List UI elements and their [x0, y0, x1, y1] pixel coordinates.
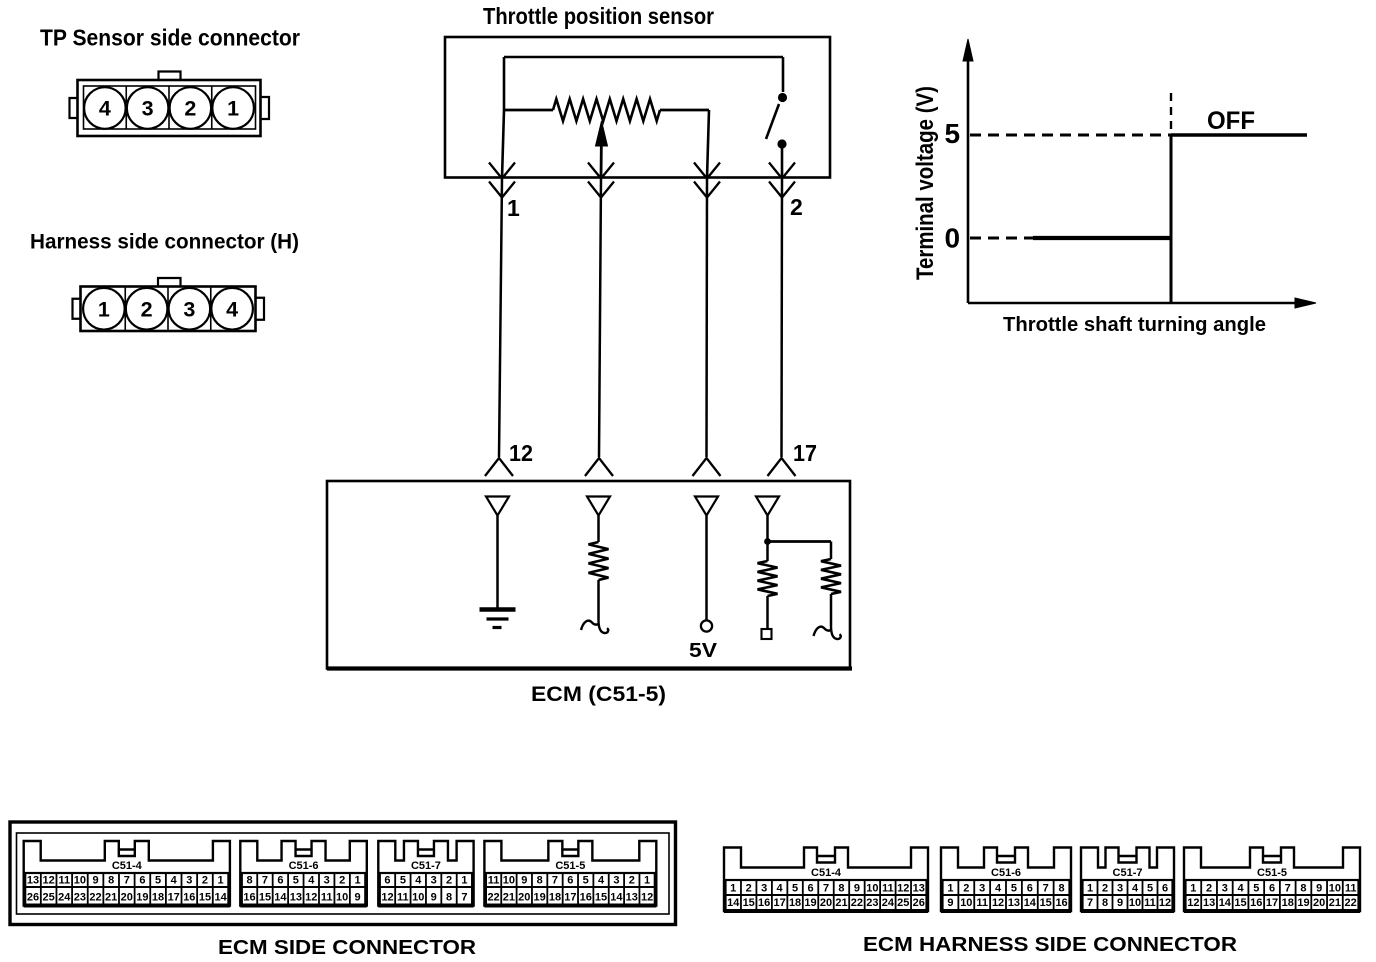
svg-text:2: 2 — [1206, 883, 1212, 895]
svg-text:2: 2 — [1102, 883, 1108, 895]
svg-text:21: 21 — [835, 897, 847, 909]
svg-text:6: 6 — [1269, 883, 1275, 895]
svg-text:2: 2 — [141, 297, 153, 321]
svg-text:4: 4 — [99, 97, 111, 121]
svg-text:16: 16 — [1250, 897, 1262, 909]
svg-text:12: 12 — [1159, 897, 1171, 909]
svg-text:7: 7 — [1087, 897, 1093, 909]
svg-text:TP Sensor side connector: TP Sensor side connector — [40, 25, 300, 51]
svg-text:11: 11 — [488, 875, 500, 887]
svg-text:13: 13 — [27, 875, 39, 887]
svg-text:12: 12 — [641, 892, 653, 904]
svg-text:2: 2 — [339, 875, 345, 887]
svg-text:2: 2 — [184, 97, 196, 121]
svg-text:22: 22 — [1345, 897, 1357, 909]
svg-text:12: 12 — [1187, 897, 1199, 909]
svg-text:10: 10 — [336, 892, 348, 904]
svg-text:Terminal voltage (V): Terminal voltage (V) — [912, 86, 939, 280]
svg-text:23: 23 — [74, 892, 86, 904]
svg-text:1: 1 — [730, 883, 736, 895]
svg-text:6: 6 — [277, 875, 283, 887]
svg-text:Throttle shaft turning angle: Throttle shaft turning angle — [1003, 314, 1266, 336]
svg-text:1: 1 — [98, 297, 110, 321]
svg-text:16: 16 — [1055, 897, 1067, 909]
svg-text:7: 7 — [552, 875, 558, 887]
svg-text:C51-4: C51-4 — [112, 860, 143, 872]
svg-text:4: 4 — [308, 875, 315, 887]
svg-text:1: 1 — [947, 883, 953, 895]
svg-text:7: 7 — [823, 883, 829, 895]
svg-text:12: 12 — [992, 897, 1004, 909]
svg-text:13: 13 — [290, 892, 302, 904]
svg-text:22: 22 — [851, 897, 863, 909]
svg-text:10: 10 — [960, 897, 972, 909]
svg-text:1: 1 — [227, 97, 239, 121]
svg-text:1: 1 — [218, 875, 224, 887]
svg-text:26: 26 — [913, 897, 925, 909]
svg-text:18: 18 — [152, 892, 164, 904]
svg-text:11: 11 — [321, 892, 333, 904]
svg-text:2: 2 — [629, 875, 635, 887]
svg-text:8: 8 — [537, 875, 543, 887]
svg-text:3: 3 — [979, 883, 985, 895]
svg-text:4: 4 — [598, 875, 605, 887]
svg-text:8: 8 — [108, 875, 114, 887]
svg-text:C51-4: C51-4 — [811, 867, 842, 879]
svg-text:11: 11 — [1144, 897, 1156, 909]
svg-text:4: 4 — [226, 297, 238, 321]
svg-text:21: 21 — [105, 892, 117, 904]
svg-text:25: 25 — [43, 892, 55, 904]
svg-text:18: 18 — [789, 897, 801, 909]
svg-text:2: 2 — [446, 875, 452, 887]
svg-text:10: 10 — [1129, 897, 1141, 909]
svg-text:15: 15 — [1040, 897, 1052, 909]
svg-text:13: 13 — [1203, 897, 1215, 909]
svg-text:3: 3 — [186, 875, 192, 887]
svg-text:17: 17 — [793, 440, 817, 466]
svg-text:11: 11 — [976, 897, 988, 909]
svg-text:6: 6 — [384, 875, 390, 887]
svg-text:1: 1 — [1190, 883, 1196, 895]
svg-text:18: 18 — [1282, 897, 1294, 909]
svg-text:6: 6 — [1027, 883, 1033, 895]
svg-text:5: 5 — [1253, 883, 1259, 895]
svg-text:15: 15 — [259, 892, 271, 904]
svg-text:10: 10 — [1329, 883, 1341, 895]
svg-text:1: 1 — [1087, 883, 1093, 895]
svg-text:5: 5 — [400, 875, 406, 887]
svg-text:5V: 5V — [689, 640, 718, 662]
svg-text:2: 2 — [790, 194, 803, 220]
svg-text:19: 19 — [534, 892, 546, 904]
svg-text:14: 14 — [1219, 897, 1232, 909]
svg-text:14: 14 — [1024, 897, 1037, 909]
svg-text:24: 24 — [882, 897, 895, 909]
svg-text:15: 15 — [743, 897, 755, 909]
svg-text:8: 8 — [246, 875, 252, 887]
svg-text:ECM HARNESS SIDE CONNECTOR: ECM HARNESS SIDE CONNECTOR — [863, 934, 1238, 956]
svg-text:3: 3 — [183, 297, 195, 321]
svg-text:14: 14 — [727, 897, 740, 909]
svg-text:1: 1 — [507, 195, 520, 221]
svg-text:10: 10 — [412, 892, 424, 904]
svg-text:ECM (C51-5): ECM (C51-5) — [531, 683, 666, 706]
svg-text:1: 1 — [461, 875, 467, 887]
svg-text:9: 9 — [854, 883, 860, 895]
svg-text:12: 12 — [381, 892, 393, 904]
svg-text:5: 5 — [155, 875, 161, 887]
svg-text:9: 9 — [947, 897, 953, 909]
svg-text:8: 8 — [1059, 883, 1065, 895]
svg-text:3: 3 — [324, 875, 330, 887]
svg-text:OFF: OFF — [1207, 107, 1255, 135]
svg-text:C51-5: C51-5 — [1257, 867, 1287, 879]
svg-text:12: 12 — [509, 440, 533, 466]
svg-text:8: 8 — [446, 892, 452, 904]
svg-text:14: 14 — [274, 892, 287, 904]
svg-text:4: 4 — [995, 883, 1002, 895]
svg-text:1: 1 — [644, 875, 650, 887]
svg-text:3: 3 — [1222, 883, 1228, 895]
svg-text:5: 5 — [1011, 883, 1017, 895]
svg-text:3: 3 — [431, 875, 437, 887]
svg-text:11: 11 — [397, 892, 409, 904]
svg-text:14: 14 — [610, 892, 623, 904]
svg-text:16: 16 — [580, 892, 592, 904]
svg-text:4: 4 — [777, 883, 784, 895]
svg-text:7: 7 — [1043, 883, 1049, 895]
svg-text:5: 5 — [792, 883, 798, 895]
svg-text:11: 11 — [58, 875, 70, 887]
svg-text:Throttle position sensor: Throttle position sensor — [483, 3, 714, 29]
svg-text:22: 22 — [89, 892, 101, 904]
svg-text:4: 4 — [1237, 883, 1244, 895]
svg-text:C51-7: C51-7 — [1113, 867, 1143, 879]
svg-text:21: 21 — [1329, 897, 1341, 909]
svg-text:10: 10 — [503, 875, 515, 887]
svg-text:6: 6 — [567, 875, 573, 887]
svg-text:17: 17 — [773, 897, 785, 909]
svg-text:16: 16 — [758, 897, 770, 909]
svg-text:9: 9 — [1117, 897, 1123, 909]
svg-text:12: 12 — [897, 883, 909, 895]
svg-text:24: 24 — [58, 892, 71, 904]
svg-text:19: 19 — [136, 892, 148, 904]
svg-text:4: 4 — [415, 875, 422, 887]
svg-text:11: 11 — [1345, 883, 1357, 895]
svg-text:22: 22 — [487, 892, 499, 904]
svg-text:13: 13 — [1008, 897, 1020, 909]
svg-text:7: 7 — [124, 875, 130, 887]
svg-text:17: 17 — [564, 892, 576, 904]
svg-text:3: 3 — [142, 97, 154, 121]
svg-text:18: 18 — [549, 892, 561, 904]
svg-text:9: 9 — [92, 875, 98, 887]
svg-text:23: 23 — [866, 897, 878, 909]
svg-text:26: 26 — [27, 892, 39, 904]
svg-text:C51-6: C51-6 — [289, 860, 319, 872]
svg-text:2: 2 — [202, 875, 208, 887]
svg-text:15: 15 — [595, 892, 607, 904]
svg-text:20: 20 — [518, 892, 530, 904]
svg-text:6: 6 — [139, 875, 145, 887]
svg-text:6: 6 — [807, 883, 813, 895]
svg-text:16: 16 — [243, 892, 255, 904]
svg-text:9: 9 — [521, 875, 527, 887]
svg-text:17: 17 — [1266, 897, 1278, 909]
svg-text:13: 13 — [626, 892, 638, 904]
svg-text:6: 6 — [1162, 883, 1168, 895]
svg-text:C51-6: C51-6 — [991, 867, 1021, 879]
svg-text:7: 7 — [262, 875, 268, 887]
svg-text:8: 8 — [838, 883, 844, 895]
svg-text:5: 5 — [945, 118, 961, 149]
svg-text:8: 8 — [1300, 883, 1306, 895]
svg-text:7: 7 — [1285, 883, 1291, 895]
svg-text:ECM SIDE CONNECTOR: ECM SIDE CONNECTOR — [218, 937, 477, 959]
svg-text:3: 3 — [761, 883, 767, 895]
svg-text:15: 15 — [199, 892, 211, 904]
svg-text:C51-5: C51-5 — [555, 860, 585, 872]
svg-text:11: 11 — [882, 883, 894, 895]
svg-text:10: 10 — [74, 875, 86, 887]
svg-text:9: 9 — [1316, 883, 1322, 895]
svg-text:Harness side connector (H): Harness side connector (H) — [30, 230, 299, 254]
svg-text:4: 4 — [171, 875, 178, 887]
svg-text:20: 20 — [121, 892, 133, 904]
svg-text:10: 10 — [866, 883, 878, 895]
svg-text:12: 12 — [43, 875, 55, 887]
svg-text:0: 0 — [945, 223, 961, 254]
svg-text:13: 13 — [913, 883, 925, 895]
svg-text:19: 19 — [1297, 897, 1309, 909]
svg-text:9: 9 — [355, 892, 361, 904]
svg-text:C51-7: C51-7 — [411, 860, 441, 872]
svg-text:4: 4 — [1132, 883, 1139, 895]
svg-text:2: 2 — [963, 883, 969, 895]
svg-text:3: 3 — [613, 875, 619, 887]
svg-text:12: 12 — [305, 892, 317, 904]
svg-text:5: 5 — [1147, 883, 1153, 895]
svg-text:19: 19 — [804, 897, 816, 909]
svg-text:5: 5 — [293, 875, 299, 887]
svg-text:7: 7 — [461, 892, 467, 904]
svg-text:14: 14 — [214, 892, 227, 904]
svg-text:2: 2 — [746, 883, 752, 895]
svg-text:8: 8 — [1102, 897, 1108, 909]
svg-text:17: 17 — [168, 892, 180, 904]
svg-text:1: 1 — [355, 875, 361, 887]
svg-text:9: 9 — [431, 892, 437, 904]
svg-text:20: 20 — [1313, 897, 1325, 909]
svg-text:21: 21 — [503, 892, 515, 904]
svg-text:20: 20 — [820, 897, 832, 909]
svg-text:5: 5 — [583, 875, 589, 887]
svg-text:25: 25 — [897, 897, 909, 909]
svg-text:16: 16 — [183, 892, 195, 904]
svg-text:15: 15 — [1234, 897, 1246, 909]
svg-text:3: 3 — [1117, 883, 1123, 895]
